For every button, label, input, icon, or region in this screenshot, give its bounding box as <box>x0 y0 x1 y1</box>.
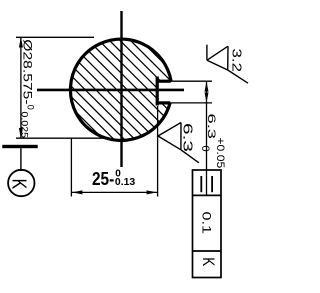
svg-text:6.3: 6.3 <box>205 114 217 140</box>
svg-text:0.1: 0.1 <box>199 212 211 235</box>
svg-text:+0.05: +0.05 <box>214 137 226 168</box>
svg-text:K: K <box>199 257 218 267</box>
svg-text:6.3: 6.3 <box>181 123 195 152</box>
svg-text:3.2: 3.2 <box>230 49 244 73</box>
svg-text:0.025: 0.025 <box>19 112 29 139</box>
svg-text:0.13: 0.13 <box>115 176 135 188</box>
svg-text:K: K <box>8 179 30 190</box>
svg-text:Ø28.575-: Ø28.575- <box>20 39 34 104</box>
svg-text:0: 0 <box>25 105 35 110</box>
svg-text:25-: 25- <box>92 169 114 189</box>
svg-text:0: 0 <box>199 146 211 152</box>
